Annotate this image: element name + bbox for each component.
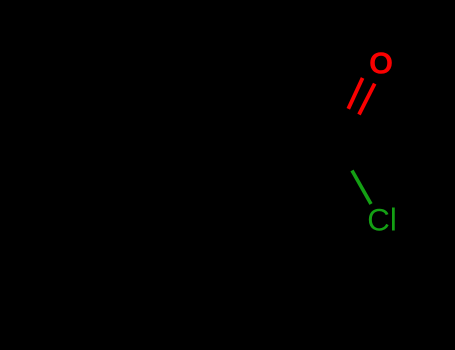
bond C-Cl (green half) bbox=[352, 171, 371, 205]
svg-text:O: O bbox=[369, 46, 393, 81]
double bond C=O, line 2 (red half) bbox=[359, 84, 375, 115]
double bond C=O, line 1 (red half) bbox=[348, 78, 362, 109]
svg-text:Cl: Cl bbox=[367, 202, 397, 237]
